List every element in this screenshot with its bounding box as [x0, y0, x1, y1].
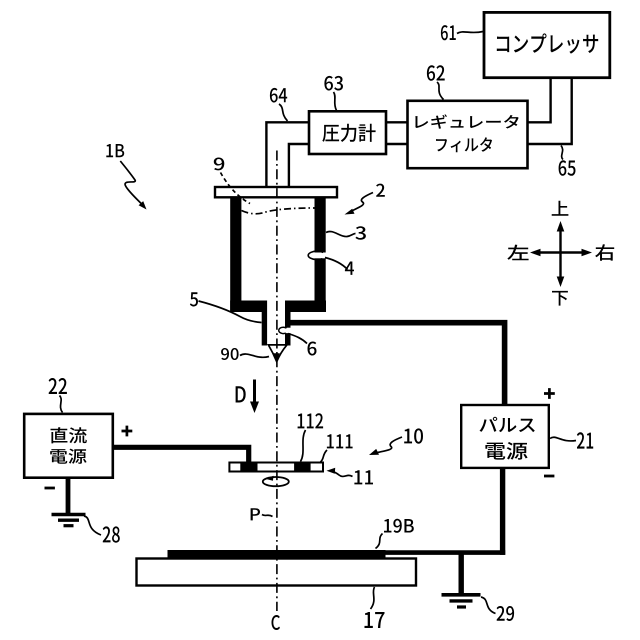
rotation arrow ellipse under holder	[263, 477, 289, 486]
minus sign at DC supply	[45, 487, 55, 490]
leader 6	[288, 334, 307, 344]
label pulse supply text line2	[485, 442, 527, 460]
label P	[251, 508, 260, 520]
label D	[236, 386, 246, 402]
leader 5	[199, 301, 262, 323]
label 1B	[106, 144, 124, 157]
label 4	[345, 261, 354, 274]
label DC supply text line1	[51, 427, 87, 443]
label filter text line2	[436, 137, 492, 152]
label 2	[376, 184, 385, 197]
direction cross horizontal line	[537, 251, 584, 253]
opening 4 gap in wall	[313, 253, 327, 259]
label 63	[324, 76, 343, 91]
container bottom left	[230, 301, 267, 313]
label 90	[221, 348, 239, 360]
label pressure-gauge text	[322, 124, 375, 142]
pipe 64 pressure gauge to lid (inner line)	[289, 144, 310, 188]
plus sign at pulse supply	[544, 388, 555, 399]
container lid plate	[215, 187, 337, 197]
DC power supply box U22	[24, 414, 113, 478]
direction cross down arrowhead	[557, 277, 565, 288]
label 112	[298, 413, 324, 428]
pipe 64 pressure gauge to lid (outer line)	[266, 122, 309, 188]
label up kanji	[552, 201, 569, 216]
direction cross up arrowhead	[557, 221, 565, 232]
arrowhead of leader 10	[369, 449, 379, 455]
liquid level dashed leader from label 9	[221, 173, 251, 204]
label 11	[354, 470, 373, 484]
opening 6 loop marker	[279, 327, 287, 333]
wire DC supply to holder electrode	[112, 447, 249, 463]
leader 64	[279, 104, 288, 121]
label 19B	[384, 519, 414, 533]
plus sign at DC supply	[122, 426, 133, 437]
arrowhead of leader 11	[327, 468, 336, 474]
wire DC supply to ground 28	[66, 477, 71, 513]
leader 22	[60, 396, 63, 413]
pipe compressor to regulator (inner line)	[528, 77, 551, 122]
minus sign at pulse supply	[544, 475, 554, 478]
wire pulse supply down	[500, 467, 505, 555]
leader 28	[84, 516, 101, 535]
label 9	[214, 157, 224, 170]
direction cross vertical line	[559, 228, 561, 278]
leader 90	[240, 354, 269, 357]
holder electrode right 112	[294, 462, 311, 473]
opening 4 loop marker	[308, 251, 323, 259]
label 22	[49, 378, 67, 394]
leader 111	[321, 450, 328, 462]
liquid level line 9 (dash-dot meniscus)	[242, 208, 315, 214]
leader 4	[325, 258, 348, 270]
wire to stage electrode 19B	[378, 550, 505, 555]
pipe 65 compressor to regulator (outer line)	[528, 77, 572, 144]
label 3	[355, 226, 365, 239]
arrow D (nozzle moving direction)	[253, 380, 256, 404]
label down kanji	[552, 291, 568, 306]
label 62	[427, 65, 445, 81]
nozzle tip cone 90 outline	[268, 345, 287, 362]
label 64	[270, 88, 287, 103]
label 17	[364, 612, 384, 628]
label DC supply text line2	[50, 449, 86, 464]
leader 21	[550, 437, 576, 441]
nozzle 5 left wall	[262, 301, 267, 346]
leader 29	[481, 597, 496, 614]
label 6	[307, 341, 316, 355]
leader 61	[457, 32, 483, 34]
label 10	[404, 428, 423, 443]
leader 63	[334, 92, 337, 111]
leader 17	[371, 587, 375, 609]
arrowhead of leader 1B	[139, 201, 147, 209]
direction cross right arrowhead	[582, 249, 593, 257]
label 29	[497, 606, 514, 621]
holder plate 11 outline	[229, 463, 323, 472]
leader 112	[301, 430, 306, 462]
label 65	[559, 160, 576, 176]
leader 65	[561, 146, 563, 160]
leader 10 squiggle	[378, 437, 403, 453]
label 61	[441, 25, 456, 40]
wire to ground 29	[459, 552, 464, 593]
leader 62	[437, 82, 444, 100]
label right kanji	[595, 244, 614, 260]
pressure gauge box U63	[309, 111, 386, 154]
label C	[271, 615, 280, 630]
direction cross left arrowhead	[530, 249, 541, 257]
leader 11 squiggle	[334, 472, 353, 477]
ground symbol 28	[52, 515, 86, 526]
container bottom right	[285, 301, 326, 313]
leader 2 squiggle	[353, 193, 374, 211]
leader P	[262, 515, 273, 517]
stage plate 17	[137, 559, 417, 586]
label 111	[327, 434, 353, 448]
label regulator text line1	[415, 114, 518, 128]
arrowhead of leader 2	[345, 209, 355, 215]
leader 1B squiggle	[120, 161, 144, 206]
holder electrode left 112	[240, 462, 257, 473]
ground symbol 29	[442, 595, 481, 607]
pipe regulator to pressure gauge (lower)	[386, 143, 408, 145]
container right wall 3	[315, 197, 326, 313]
stage electrode bar 19B	[168, 550, 386, 558]
nozzle 5 right wall	[285, 301, 291, 346]
pulse power supply box U21	[461, 405, 549, 468]
nozzle tip inner cone 90	[273, 353, 280, 362]
label compressor text	[497, 33, 598, 53]
leader 3	[326, 231, 356, 236]
leader 19B	[376, 534, 383, 549]
compressor box U61	[484, 12, 610, 77]
regulator-filter box U62	[408, 101, 528, 168]
label 28	[103, 526, 120, 542]
rotation arrowhead	[266, 476, 274, 481]
label 5	[190, 292, 198, 306]
wire nozzle to pulse supply	[290, 323, 505, 406]
label left kanji	[507, 245, 528, 261]
container left wall 3	[230, 197, 241, 313]
label pulse supply text line1	[480, 417, 535, 432]
pipe regulator to pressure gauge (upper)	[386, 121, 408, 123]
label 21	[577, 432, 593, 448]
centerline C (dash-dot axis)	[276, 151, 278, 612]
opening 6 gap in nozzle wall	[284, 328, 292, 333]
